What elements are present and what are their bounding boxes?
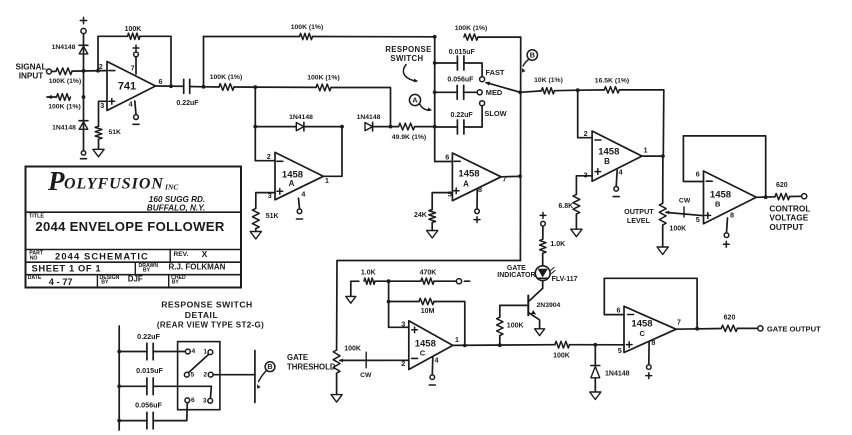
- wire clamp rail vertical: [83, 34, 85, 71]
- MED switch terminal: [477, 90, 482, 95]
- ground below gate clamp diode: [590, 392, 601, 400]
- svg-text:5: 5: [448, 190, 452, 199]
- minus supply terminal lower-left: [81, 151, 85, 155]
- pin 4 V- terminal comparator: [431, 357, 434, 375]
- ground below 51K: [93, 149, 104, 157]
- svg-text:DETAIL: DETAIL: [185, 310, 218, 320]
- capacitor 0.015uF response: [435, 62, 458, 64]
- svg-text:51K: 51K: [109, 129, 122, 136]
- cv output terminal: [790, 195, 802, 197]
- svg-text:B: B: [715, 199, 721, 208]
- wire switch common to 10K: [520, 91, 541, 92]
- svg-text:OUTPUT: OUTPUT: [624, 207, 654, 216]
- svg-text:100K: 100K: [553, 353, 570, 360]
- op-amp U2A 1458: [275, 152, 323, 199]
- title block outer box: [26, 167, 242, 288]
- svg-text:INPUT: INPUT: [19, 71, 44, 80]
- svg-text:BY: BY: [172, 279, 180, 285]
- svg-text:B: B: [530, 51, 536, 60]
- svg-text:0.015uF: 0.015uF: [136, 366, 163, 375]
- ground below 6.8K: [571, 229, 582, 237]
- svg-text:0.22uF: 0.22uF: [176, 100, 199, 107]
- svg-text:VOLTAGE: VOLTAGE: [769, 213, 808, 223]
- wire 1458B1 output: [642, 155, 663, 157]
- capacitor 0.22uF response: [435, 126, 458, 128]
- capacitor 0.056uF response: [435, 91, 458, 93]
- resistor 10M feedback: [389, 301, 419, 303]
- svg-text:3: 3: [100, 101, 104, 110]
- svg-text:2: 2: [584, 129, 588, 138]
- op-amp U3B 1458 B second: [704, 171, 757, 224]
- wire to comparator pin3: [389, 326, 409, 328]
- svg-text:0.22uF: 0.22uF: [451, 112, 474, 119]
- svg-text:SHEET 1 OF 1: SHEET 1 OF 1: [32, 262, 102, 273]
- switch wiper arm: [486, 83, 520, 93]
- node input junction: [82, 69, 86, 73]
- wire 10K to junction: [554, 89, 577, 92]
- wire top feedback middle: [313, 36, 435, 38]
- svg-text:620: 620: [776, 182, 788, 189]
- svg-text:5: 5: [696, 215, 700, 224]
- svg-text:7: 7: [131, 63, 135, 72]
- svg-text:1458: 1458: [598, 147, 619, 158]
- svg-text:3: 3: [203, 397, 207, 404]
- wire 1458A2 output: [501, 175, 520, 178]
- svg-text:8: 8: [651, 338, 655, 347]
- wire top feedback left: [203, 37, 205, 87]
- wire D2 to 49.9K: [373, 126, 399, 128]
- svg-text:6.8K: 6.8K: [558, 203, 573, 210]
- resistor 100K (1%) response feedback: [464, 34, 478, 40]
- svg-text:8: 8: [478, 185, 482, 194]
- svg-text:620: 620: [724, 314, 736, 321]
- svg-text:100K (1%): 100K (1%): [307, 75, 340, 82]
- terminal 4: [185, 349, 190, 354]
- title block divider drawn: [134, 262, 136, 275]
- svg-text:SIGNAL: SIGNAL: [16, 62, 47, 71]
- svg-text:R.J. FOLKMAN: R.J. FOLKMAN: [169, 263, 226, 272]
- arrow to panel: [47, 96, 57, 98]
- wire 1458B1 pin2: [578, 90, 592, 138]
- svg-text:1458: 1458: [631, 318, 652, 329]
- pin 4 V- terminal: [616, 170, 617, 186]
- wire input node to 741 pin 2: [72, 70, 107, 73]
- title block rule 4: [26, 274, 242, 276]
- svg-text:6: 6: [617, 306, 621, 315]
- svg-text:1458: 1458: [415, 339, 436, 350]
- svg-text:DJF: DJF: [128, 274, 143, 283]
- wire output node to pot: [662, 156, 664, 203]
- op-amp U3A 1458 B: [592, 131, 642, 181]
- wire D1 to D2: [304, 126, 342, 128]
- svg-text:49.9K (1%): 49.9K (1%): [392, 134, 426, 141]
- wire 1458C2 output: [676, 328, 721, 331]
- svg-text:1: 1: [203, 348, 207, 355]
- resistor 470K: [389, 280, 421, 282]
- svg-text:REV.: REV.: [174, 251, 189, 258]
- title block divider rev: [169, 250, 171, 263]
- svg-text:0.015uF: 0.015uF: [449, 49, 476, 56]
- node B stub vertical: [254, 351, 256, 403]
- resistor 100K (1%) fourth: [316, 84, 331, 91]
- gate threshold wiper: [339, 359, 343, 363]
- svg-text:100K: 100K: [507, 323, 524, 330]
- svg-text:24K: 24K: [414, 212, 427, 219]
- gate output terminal: [737, 327, 758, 329]
- wire rectifier node vertical: [254, 87, 256, 161]
- op-amp U4A 1458 C: [409, 321, 453, 370]
- title block divider checked: [168, 275, 170, 288]
- svg-text:INC: INC: [164, 183, 179, 192]
- resistor 1.0K LED: [540, 239, 546, 253]
- svg-text:NO: NO: [30, 256, 38, 262]
- svg-text:741: 741: [118, 80, 136, 92]
- capacitor 0.22uF coupling: [183, 79, 185, 93]
- SLOW switch terminal: [480, 101, 485, 106]
- wire 16.5K to feedback corner: [619, 90, 664, 156]
- svg-text:2044 SCHEMATIC: 2044 SCHEMATIC: [55, 250, 149, 261]
- svg-text:100K: 100K: [344, 345, 361, 352]
- svg-text:1N4148: 1N4148: [357, 114, 381, 121]
- svg-text:OLYFUSION: OLYFUSION: [64, 176, 164, 193]
- wire detail left bus: [118, 326, 120, 430]
- svg-text:GATE: GATE: [507, 265, 526, 272]
- svg-text:470K: 470K: [420, 269, 437, 276]
- svg-text:4 - 77: 4 - 77: [49, 277, 73, 287]
- resistor 620 cv output: [775, 193, 790, 199]
- wire 1458A pin2: [255, 160, 275, 162]
- ground below emitter: [535, 329, 545, 336]
- node B leader arrow: [523, 59, 529, 66]
- svg-text:5: 5: [618, 346, 622, 355]
- svg-text:0.056uF: 0.056uF: [135, 400, 162, 409]
- svg-text:A: A: [412, 96, 418, 105]
- svg-text:C: C: [420, 348, 426, 357]
- svg-text:1N4148: 1N4148: [605, 371, 630, 378]
- svg-text:2: 2: [401, 359, 405, 368]
- svg-text:2: 2: [203, 371, 207, 378]
- svg-text:2044 ENVELOPE FOLLOWER: 2044 ENVELOPE FOLLOWER: [35, 219, 224, 234]
- ground below 51K second: [250, 232, 261, 240]
- capacitor 0.056uF detail: [119, 420, 147, 422]
- svg-text:BY: BY: [143, 268, 151, 274]
- svg-text:100K (1%): 100K (1%): [49, 78, 82, 85]
- resistor 10K (1%): [541, 88, 554, 94]
- diode 1N4148 clamp up: [79, 44, 88, 46]
- svg-text:4: 4: [129, 100, 133, 109]
- svg-text:C: C: [640, 329, 646, 338]
- resistor 100K transistor base: [499, 336, 501, 346]
- wire top feedback right: [478, 36, 521, 38]
- 470K open terminal: [434, 280, 456, 282]
- wire junction to 16.5K: [578, 89, 605, 91]
- wire cap to summing node: [190, 86, 204, 88]
- wire to diode D1: [255, 126, 296, 128]
- FAST switch terminal: [480, 77, 485, 82]
- wire 100K to gate follower input: [570, 344, 625, 346]
- plus supply terminal top-left: [80, 20, 86, 22]
- svg-text:100K: 100K: [125, 26, 142, 33]
- resistor 24K at pin5: [432, 193, 452, 210]
- svg-text:10M: 10M: [421, 308, 435, 315]
- diode 1N4148 D2: [365, 123, 373, 131]
- wire to rectifier output branch: [331, 88, 391, 127]
- node second row junction: [82, 95, 86, 99]
- wire 49.9K to node A: [415, 126, 435, 128]
- resistor 100K gate to follower: [555, 341, 570, 348]
- svg-text:1: 1: [325, 178, 329, 185]
- svg-text:1: 1: [644, 147, 648, 154]
- title block header rule: [26, 211, 242, 213]
- svg-text:6: 6: [445, 152, 449, 161]
- svg-text:4: 4: [191, 348, 195, 355]
- svg-text:6: 6: [159, 77, 163, 86]
- svg-text:DATE: DATE: [28, 275, 42, 281]
- svg-text:100K (1%): 100K (1%): [210, 74, 243, 81]
- node A leader arrow: [420, 104, 431, 110]
- svg-text:0.22uF: 0.22uF: [137, 332, 160, 341]
- potentiometer 100K gate threshold: [333, 350, 340, 373]
- diode 1N4148 gate clamp: [594, 345, 596, 366]
- wire node B to gate threshold pot: [337, 261, 521, 351]
- wire 1458B2 output: [756, 196, 775, 199]
- diode 1N4148 clamp down: [79, 120, 88, 122]
- wire input to resistor: [52, 70, 57, 72]
- pin 8 V+ terminal: [476, 189, 478, 209]
- svg-text:B: B: [604, 157, 610, 166]
- svg-text:RESPONSE SWITCH: RESPONSE SWITCH: [161, 299, 253, 309]
- svg-text:4: 4: [435, 355, 439, 364]
- node A circle label: [409, 94, 420, 105]
- resistor 100K (1%) input: [56, 68, 72, 75]
- capacitor 0.015uF detail: [119, 385, 147, 387]
- svg-text:OUTPUT: OUTPUT: [769, 222, 803, 232]
- transistor Q1 2N3904: [527, 296, 529, 316]
- resistor 100K (1%) second: [57, 94, 71, 101]
- wire 1458B2 feedback box: [683, 136, 765, 197]
- svg-text:(REAR VIEW TYPE ST2-G): (REAR VIEW TYPE ST2-G): [157, 320, 264, 329]
- svg-text:0.056uF: 0.056uF: [447, 77, 474, 84]
- wire 1.0K to junction: [375, 280, 389, 282]
- title block rule 3: [26, 261, 242, 263]
- svg-text:100K (1%): 100K (1%): [455, 25, 488, 32]
- svg-text:100K (1%): 100K (1%): [48, 104, 81, 111]
- svg-text:CW: CW: [679, 197, 691, 204]
- terminal 6: [185, 398, 190, 403]
- capacitor 0.22uF detail: [119, 351, 147, 353]
- svg-text:2N3904: 2N3904: [537, 302, 561, 309]
- svg-text:6: 6: [696, 169, 700, 178]
- wire 1458A output to diode junction: [323, 127, 342, 177]
- ground below 24K: [427, 231, 438, 239]
- terminal 5: [184, 372, 189, 377]
- resistor 6.8K at pin3: [576, 176, 592, 195]
- wire node A vertical: [434, 37, 436, 162]
- svg-text:FAST: FAST: [486, 68, 505, 77]
- svg-text:GATE: GATE: [287, 353, 308, 362]
- node B detail circle: [265, 362, 275, 372]
- svg-text:4: 4: [619, 168, 623, 177]
- ground below output level pot: [657, 247, 668, 255]
- node B circle label: [527, 50, 537, 60]
- svg-text:1N4148: 1N4148: [52, 44, 76, 51]
- op-amp U1 741: [107, 62, 156, 111]
- wire terminal 2 to node B stub: [213, 374, 255, 376]
- response switch leader arrow: [403, 65, 416, 82]
- svg-text:16.5K (1%): 16.5K (1%): [595, 77, 629, 84]
- ground below gate threshold pot: [331, 395, 342, 403]
- svg-text:GATE OUTPUT: GATE OUTPUT: [767, 325, 821, 334]
- resistor 1.0K to ground: [351, 280, 359, 282]
- title block divider design: [96, 275, 98, 288]
- svg-text:1N4148: 1N4148: [289, 114, 313, 121]
- resistor 100K (1%) third: [204, 86, 220, 88]
- diode 1N4148 D1: [296, 123, 304, 131]
- wire comparator output: [453, 344, 555, 347]
- resistor 620 gate output: [721, 325, 737, 331]
- svg-text:5: 5: [190, 371, 194, 378]
- svg-text:RESPONSE: RESPONSE: [385, 45, 432, 54]
- svg-text:THRESHOLD: THRESHOLD: [287, 362, 336, 371]
- wire 1458A2 pin6: [435, 161, 453, 163]
- svg-text:2: 2: [267, 152, 271, 161]
- resistor 100K (1%) summing top: [300, 33, 313, 39]
- svg-text:B: B: [267, 362, 272, 371]
- switch strap 5 to 1: [189, 354, 209, 372]
- svg-text:LEVEL: LEVEL: [627, 216, 651, 225]
- svg-text:1: 1: [455, 337, 459, 344]
- input terminal: [47, 69, 52, 74]
- resistor 51K to ground at 741 pin 3: [99, 101, 108, 126]
- svg-text:CW: CW: [360, 372, 372, 379]
- wire node B vertical: [519, 37, 521, 260]
- svg-text:8: 8: [730, 210, 734, 219]
- LED light arrows: [551, 268, 555, 271]
- wire 741 output: [156, 85, 184, 87]
- svg-text:2: 2: [99, 62, 103, 71]
- pin 8 V+ terminal cv: [727, 218, 728, 232]
- svg-text:1.0K: 1.0K: [361, 270, 376, 277]
- svg-text:6: 6: [191, 397, 195, 404]
- wire junction vertical: [388, 281, 390, 327]
- pin 4 V- terminal: [299, 198, 300, 208]
- svg-text:A: A: [463, 180, 469, 189]
- wire to node: [234, 86, 316, 88]
- svg-text:10K (1%): 10K (1%): [534, 77, 563, 84]
- svg-text:INDICATOR: INDICATOR: [497, 272, 535, 279]
- svg-text:4: 4: [301, 189, 305, 198]
- switch body box: [178, 342, 220, 410]
- pin 8 V+ terminal gate: [648, 342, 650, 365]
- svg-text:3: 3: [401, 319, 405, 328]
- op-amp U4B 1458 C second: [624, 306, 676, 352]
- ground below 1.0K: [346, 296, 356, 303]
- svg-text:SWITCH: SWITCH: [390, 54, 423, 63]
- LED gate indicator FLV-117: [535, 266, 550, 281]
- svg-text:100K: 100K: [669, 225, 686, 232]
- wire pot to ground: [336, 373, 338, 394]
- op-amp U2B 1458 second: [452, 153, 501, 201]
- output level wiper: [665, 211, 669, 215]
- LED supply terminal: [542, 226, 544, 239]
- svg-text:X: X: [202, 249, 208, 259]
- svg-text:A: A: [289, 179, 295, 188]
- svg-text:BUFFALO, N.Y.: BUFFALO, N.Y.: [147, 203, 205, 212]
- svg-text:1N4148: 1N4148: [52, 124, 76, 131]
- potentiometer 100K output level: [659, 203, 666, 225]
- node B detail leader arrow: [259, 370, 267, 382]
- svg-text:1458: 1458: [458, 169, 479, 180]
- svg-text:SLOW: SLOW: [484, 109, 506, 118]
- svg-text:51K: 51K: [266, 213, 279, 220]
- svg-text:P: P: [47, 166, 65, 196]
- svg-text:100K (1%): 100K (1%): [291, 24, 324, 31]
- wire 1458C2 feedback box: [604, 278, 697, 328]
- svg-text:BY: BY: [101, 279, 109, 285]
- resistor 49.9K (1%): [399, 123, 415, 130]
- resistor 51K at 1458A pin3: [256, 193, 275, 209]
- svg-text:1.0K: 1.0K: [550, 241, 565, 248]
- feedback resistor 100K of 741: [98, 36, 128, 70]
- svg-text:7: 7: [677, 320, 681, 327]
- resistor 16.5K (1%): [604, 87, 619, 93]
- svg-text:MED: MED: [486, 88, 503, 97]
- title block rule 2: [26, 249, 242, 251]
- svg-text:FLV-117: FLV-117: [552, 276, 578, 283]
